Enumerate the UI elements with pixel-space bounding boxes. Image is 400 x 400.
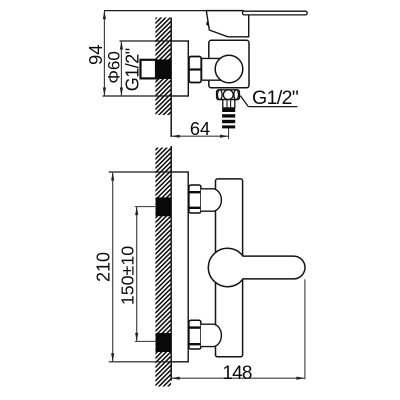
lower seal centerline xyxy=(135,340,156,342)
wall flange xyxy=(171,41,188,96)
flange top extension line xyxy=(109,171,171,173)
hose shank xyxy=(223,100,235,108)
handle pivot and lever (front) xyxy=(208,248,305,286)
dimension 150+-10 xyxy=(118,207,139,342)
svg-text:148: 148 xyxy=(222,363,252,384)
dimension 210 xyxy=(94,172,115,362)
svg-text:210: 210 xyxy=(94,252,114,282)
inlet pipe stub xyxy=(201,58,211,81)
svg-text:64: 64 xyxy=(190,119,210,139)
supply pipe behind wall xyxy=(141,60,157,79)
diverter knob circle xyxy=(215,55,243,83)
svg-text:G1/2": G1/2" xyxy=(252,87,299,109)
lower union nut xyxy=(189,320,201,349)
G1/2 outlet label xyxy=(240,87,299,109)
lever bar (side view) xyxy=(243,11,308,15)
dimension 94 xyxy=(85,11,106,96)
temperature indicator dot xyxy=(206,21,209,26)
mixer body xyxy=(209,40,249,88)
pipe seal (black) xyxy=(156,60,172,80)
dimension D60 xyxy=(104,41,123,96)
dimension 64 xyxy=(171,119,228,139)
dimension 148 xyxy=(171,363,305,384)
handle cap outline xyxy=(206,11,248,37)
svg-text:Φ60: Φ60 xyxy=(104,51,123,83)
svg-text:150±10: 150±10 xyxy=(118,246,138,305)
inlet hex nut xyxy=(189,57,201,83)
flange bottom extension line xyxy=(103,95,172,97)
svg-text:G1/2": G1/2" xyxy=(123,48,143,91)
wall hatch (top view wall) xyxy=(155,18,171,116)
outlet hex nut xyxy=(217,90,240,100)
flange top extension line xyxy=(120,40,172,42)
svg-text:94: 94 xyxy=(85,45,106,65)
lower pipe seal (black) xyxy=(156,333,172,352)
wall surface line xyxy=(170,146,172,381)
upper pipe seal (black) xyxy=(156,197,171,216)
extension line top (94 / handle top) xyxy=(104,10,244,12)
mounting flange xyxy=(171,172,188,362)
upper union cone xyxy=(201,189,222,211)
wall hatch (front view wall) xyxy=(155,148,171,387)
wall surface line xyxy=(170,18,172,138)
mixer body (front) xyxy=(216,179,243,357)
flange bottom extension line xyxy=(109,361,171,363)
lever tip extension line xyxy=(304,279,306,379)
hose centerline xyxy=(228,128,230,139)
lower union cone xyxy=(201,324,222,346)
upper seal centerline xyxy=(135,206,156,208)
hose barb ribs xyxy=(222,109,235,129)
upper union nut xyxy=(189,185,201,213)
